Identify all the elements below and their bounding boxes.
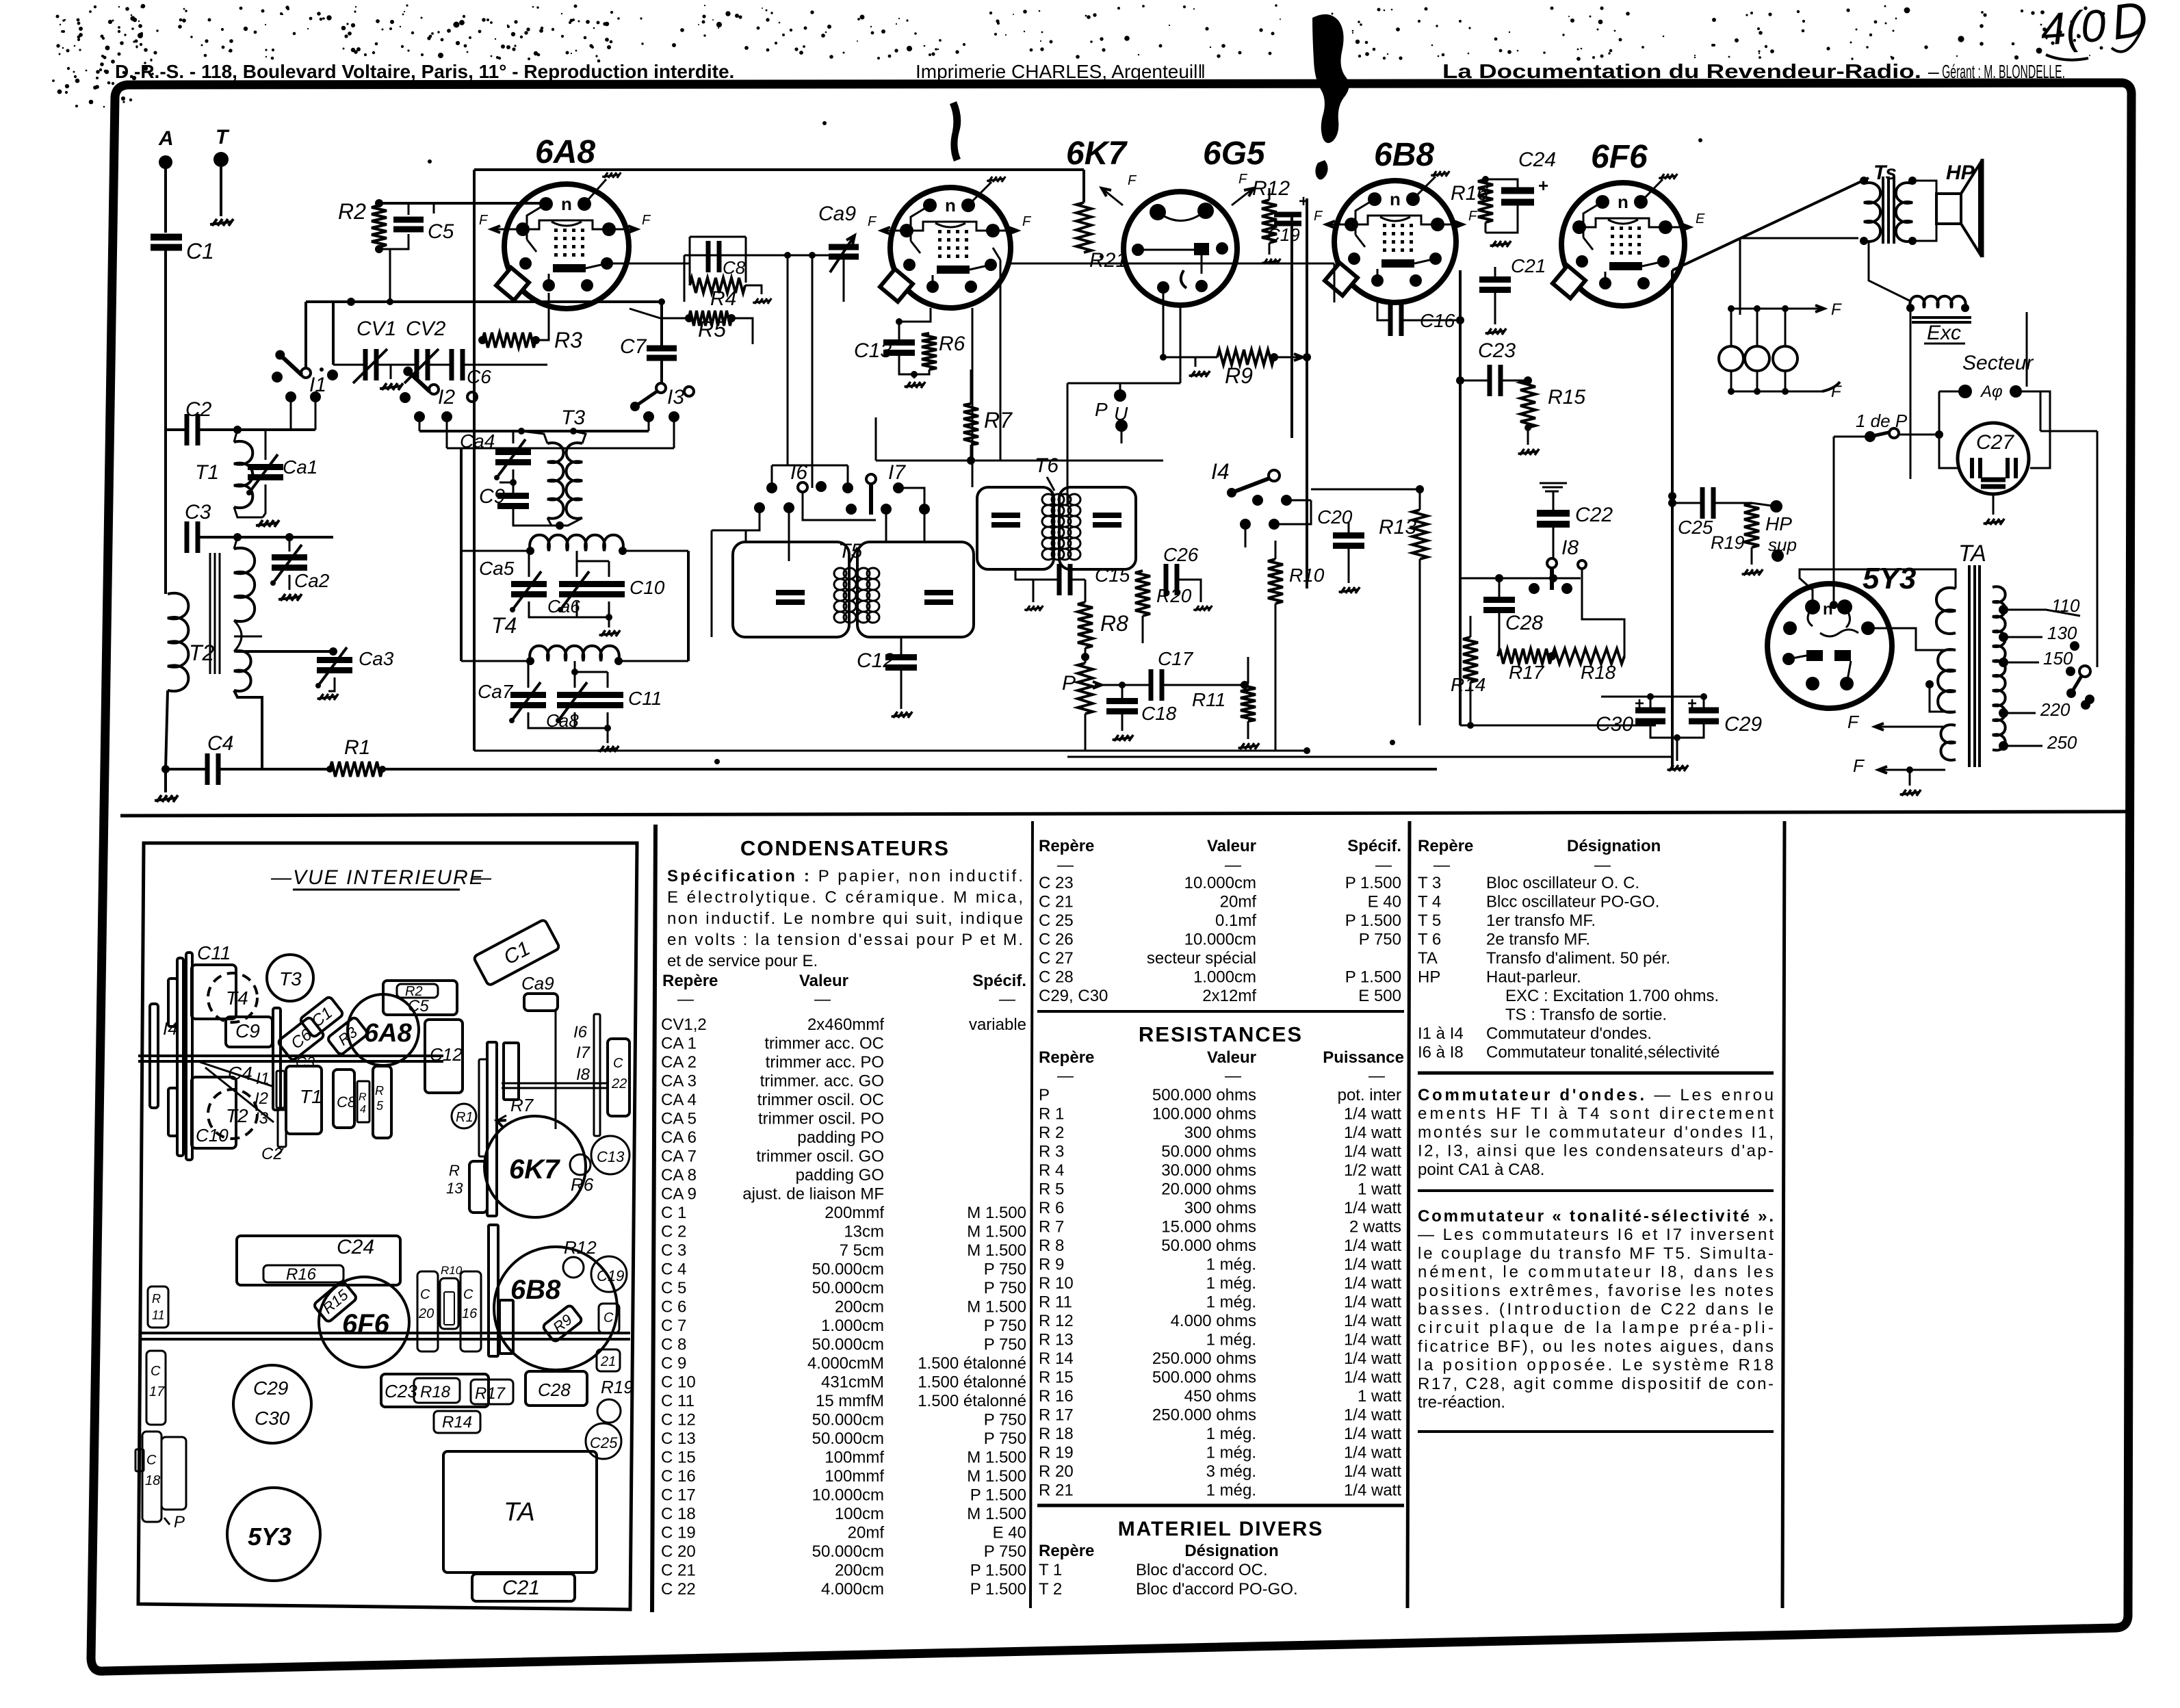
svg-text:C23: C23 bbox=[1478, 339, 1516, 362]
svg-text:Bloc d'accord OC.: Bloc d'accord OC. bbox=[1136, 1561, 1268, 1579]
resistor R3 bbox=[482, 333, 536, 348]
svg-text:C18: C18 bbox=[1141, 703, 1177, 724]
svg-text:I1 à I4: I1 à I4 bbox=[1418, 1024, 1464, 1043]
svg-text:CA 8: CA 8 bbox=[661, 1166, 697, 1185]
svg-text:6B8: 6B8 bbox=[510, 1275, 561, 1305]
svg-text:R6: R6 bbox=[939, 333, 965, 355]
resistor R1 circle (chassis) bbox=[452, 1104, 476, 1128]
svg-text:C 12: C 12 bbox=[661, 1411, 696, 1429]
svg-text:C19: C19 bbox=[597, 1267, 624, 1284]
wire F arrows 6A8 bbox=[491, 229, 523, 231]
svg-text:Imprimerie CHARLES, Argenteu: Imprimerie CHARLES, Argenteuil‖ bbox=[916, 61, 1206, 82]
svg-text:R17, C28, agit comme dispositi: R17, C28, agit comme dispositif de con- bbox=[1418, 1375, 1774, 1393]
fuse rail F upper bbox=[1730, 308, 1824, 310]
svg-text:padding PO: padding PO bbox=[797, 1128, 884, 1147]
svg-text:R 7: R 7 bbox=[1039, 1218, 1064, 1237]
svg-text:C 16: C 16 bbox=[661, 1467, 696, 1486]
trimmer C2 (chassis) bbox=[278, 1110, 286, 1147]
svg-text:R19: R19 bbox=[1711, 532, 1745, 553]
tuning shaft horizontal bbox=[138, 1054, 443, 1057]
svg-text:C26: C26 bbox=[1163, 544, 1199, 565]
svg-text:P 750: P 750 bbox=[984, 1279, 1026, 1297]
svg-text:C10: C10 bbox=[630, 577, 665, 598]
svg-text:CA 6: CA 6 bbox=[661, 1128, 697, 1147]
svg-text:C 8: C 8 bbox=[661, 1336, 686, 1354]
svg-text:C 5: C 5 bbox=[661, 1279, 686, 1297]
svg-text:tre-réaction.: tre-réaction. bbox=[1418, 1393, 1505, 1412]
capacitor C29 bbox=[1689, 708, 1719, 714]
svg-text:1/4 watt: 1/4 watt bbox=[1344, 1349, 1401, 1368]
capacitor C1 (chassis) bbox=[299, 996, 343, 1037]
svg-text:RESISTANCES: RESISTANCES bbox=[1139, 1022, 1303, 1046]
capacitors C29 C30 bbox=[233, 1365, 311, 1443]
svg-text:T4: T4 bbox=[491, 613, 517, 638]
capacitor C21 bbox=[1479, 276, 1511, 283]
capacitor C6 bbox=[450, 349, 454, 380]
svg-text:1.500 étalonné: 1.500 étalonné bbox=[918, 1392, 1026, 1410]
svg-text:—: — bbox=[1056, 1067, 1074, 1085]
svg-text:C11: C11 bbox=[197, 942, 231, 963]
svg-text:Puissance: Puissance bbox=[1323, 1048, 1404, 1067]
wire fuse link bbox=[1730, 308, 1740, 310]
svg-text:M 1.500: M 1.500 bbox=[967, 1449, 1026, 1467]
shaft vertical bbox=[273, 1008, 281, 1110]
svg-text:Bloc d'accord PO-GO.: Bloc d'accord PO-GO. bbox=[1136, 1580, 1298, 1599]
svg-text:C: C bbox=[604, 1310, 614, 1325]
svg-text:R 18: R 18 bbox=[1039, 1425, 1074, 1443]
svg-text:Ca9: Ca9 bbox=[818, 203, 856, 225]
wire R7 bus bbox=[876, 460, 1163, 462]
svg-text:C9: C9 bbox=[235, 1020, 260, 1041]
svg-text:trimmer oscil. PO: trimmer oscil. PO bbox=[758, 1110, 884, 1128]
svg-text:C: C bbox=[613, 1056, 623, 1071]
svg-text:Spécif.: Spécif. bbox=[972, 972, 1026, 990]
svg-text:T3: T3 bbox=[561, 406, 585, 429]
svg-text:3 még.: 3 még. bbox=[1206, 1462, 1256, 1481]
svg-text:6K7: 6K7 bbox=[509, 1154, 560, 1185]
svg-text:1.500 étalonné: 1.500 étalonné bbox=[918, 1354, 1026, 1373]
svg-text:C13: C13 bbox=[597, 1148, 625, 1165]
svg-text:C1: C1 bbox=[186, 239, 214, 263]
capacitor C6 (chassis) bbox=[277, 1016, 324, 1061]
trimmer Ca3 bbox=[317, 657, 352, 663]
tube 5Y3 (chassis) bbox=[227, 1488, 320, 1581]
svg-text:21: 21 bbox=[600, 1354, 616, 1369]
resistor R19 bbox=[1744, 503, 1759, 547]
svg-text:MATERIEL DIVERS: MATERIEL DIVERS bbox=[1118, 1518, 1324, 1540]
svg-text:R 19: R 19 bbox=[1039, 1444, 1074, 1462]
svg-text:R 17: R 17 bbox=[1039, 1406, 1074, 1425]
svg-text:C17: C17 bbox=[1158, 648, 1194, 669]
capacitor C19 bbox=[1274, 212, 1301, 218]
svg-text:R 8: R 8 bbox=[1039, 1237, 1064, 1255]
svg-text:n: n bbox=[1618, 192, 1628, 212]
svg-text:R 11: R 11 bbox=[1039, 1293, 1072, 1312]
svg-text:500.000 ohms: 500.000 ohms bbox=[1152, 1369, 1256, 1387]
svg-text:C23: C23 bbox=[385, 1381, 417, 1401]
svg-text:en volts : la tension d'essai: en volts : la tension d'essai pour P et … bbox=[667, 931, 1023, 949]
svg-text:C 26: C 26 bbox=[1039, 931, 1074, 949]
svg-text:P 1.500: P 1.500 bbox=[970, 1562, 1026, 1580]
svg-text:R17: R17 bbox=[475, 1384, 506, 1403]
shaft I4 bbox=[150, 1004, 158, 1108]
wire tap to Ca3 bbox=[234, 636, 262, 638]
svg-text:TA: TA bbox=[504, 1498, 535, 1527]
excitation coil Exc bbox=[1910, 296, 1965, 308]
svg-text:200mmf: 200mmf bbox=[825, 1204, 884, 1222]
svg-text:F: F bbox=[1853, 755, 1865, 776]
svg-text:Ca3: Ca3 bbox=[359, 648, 394, 669]
wire bus x693 down bbox=[473, 337, 476, 751]
svg-text:5: 5 bbox=[376, 1099, 384, 1113]
svg-text:R19: R19 bbox=[601, 1377, 634, 1397]
svg-text:T 3: T 3 bbox=[1418, 874, 1441, 892]
svg-text:15.000 ohms: 15.000 ohms bbox=[1161, 1218, 1256, 1237]
capacitor C5 bbox=[393, 217, 424, 223]
svg-text:C25: C25 bbox=[590, 1434, 618, 1451]
resistor R21 bbox=[1076, 203, 1091, 253]
svg-text:F: F bbox=[1128, 173, 1137, 188]
fuse lamps bbox=[1719, 346, 1743, 371]
svg-text:M 1.500: M 1.500 bbox=[967, 1505, 1026, 1523]
svg-text:T 4: T 4 bbox=[1418, 893, 1441, 911]
svg-text:R 1: R 1 bbox=[1039, 1105, 1064, 1124]
capacitor C9 bbox=[497, 493, 529, 499]
capacitor C16 (chassis) bbox=[460, 1271, 481, 1351]
svg-text:Valeur: Valeur bbox=[1207, 1048, 1256, 1067]
wire 6B8 verticals bbox=[1459, 270, 1462, 725]
svg-text:15 mmfM: 15 mmfM bbox=[816, 1392, 884, 1410]
svg-text:C10: C10 bbox=[196, 1125, 229, 1146]
svg-text:20: 20 bbox=[418, 1306, 434, 1321]
svg-text:C5: C5 bbox=[408, 997, 429, 1015]
svg-text:R9: R9 bbox=[1225, 363, 1253, 388]
svg-text:Spécif.: Spécif. bbox=[1347, 837, 1401, 855]
svg-text:R 5: R 5 bbox=[1039, 1180, 1064, 1199]
svg-text:F: F bbox=[1831, 383, 1842, 401]
capacitor C16 bbox=[1388, 305, 1393, 336]
svg-text:C 28: C 28 bbox=[1039, 968, 1074, 987]
svg-text:1/4 watt: 1/4 watt bbox=[1344, 1293, 1401, 1312]
svg-text:et de service pour E.: et de service pour E. bbox=[667, 952, 818, 970]
svg-text:Repère: Repère bbox=[1039, 1542, 1094, 1560]
svg-text:P: P bbox=[1039, 1086, 1050, 1104]
svg-text:1/4 watt: 1/4 watt bbox=[1344, 1199, 1401, 1217]
svg-text:CA 9: CA 9 bbox=[661, 1185, 697, 1204]
svg-text:Ca7: Ca7 bbox=[478, 681, 514, 702]
svg-text:13: 13 bbox=[446, 1180, 463, 1197]
svg-text:1/4 watt: 1/4 watt bbox=[1344, 1237, 1401, 1255]
svg-text:1er transfo MF.: 1er transfo MF. bbox=[1486, 911, 1596, 930]
switch I2 bbox=[400, 392, 411, 403]
resistor R6 bbox=[922, 333, 937, 370]
svg-text:C29, C30: C29, C30 bbox=[1039, 987, 1108, 1005]
wire CV row bbox=[333, 364, 365, 366]
tube 6F6 (chassis) bbox=[319, 1277, 409, 1367]
svg-text:1/4 watt: 1/4 watt bbox=[1344, 1256, 1401, 1274]
svg-text:—: — bbox=[270, 866, 292, 889]
svg-text:basses. (Introduction de C22 d: basses. (Introduction de C22 dans le bbox=[1418, 1300, 1774, 1319]
svg-text:HP: HP bbox=[1946, 161, 1975, 184]
capacitor T5 left bbox=[776, 590, 805, 595]
capacitor C10 bbox=[192, 1077, 236, 1148]
svg-text:11: 11 bbox=[152, 1308, 165, 1322]
svg-text:C24: C24 bbox=[1518, 148, 1556, 171]
svg-text:10.000cm: 10.000cm bbox=[1184, 931, 1256, 949]
svg-text:6A8: 6A8 bbox=[535, 134, 595, 170]
svg-text:CONDENSATEURS: CONDENSATEURS bbox=[740, 836, 950, 860]
capacitor C4 bbox=[205, 753, 210, 785]
wire I7 levers down bbox=[803, 492, 876, 520]
svg-text:C 7: C 7 bbox=[661, 1317, 686, 1335]
svg-text:T: T bbox=[216, 126, 230, 148]
svg-text:C21: C21 bbox=[502, 1577, 540, 1599]
wire left column bbox=[164, 430, 167, 537]
svg-text:R 3: R 3 bbox=[1039, 1143, 1064, 1161]
svg-text:trimmer acc. PO: trimmer acc. PO bbox=[766, 1053, 884, 1072]
svg-text:7 5cm: 7 5cm bbox=[840, 1241, 884, 1260]
svg-text:P 750: P 750 bbox=[984, 1317, 1026, 1335]
svg-text:1.500 étalonné: 1.500 étalonné bbox=[918, 1373, 1026, 1392]
block C23 R18 R17 bbox=[381, 1374, 489, 1407]
svg-text:100mmf: 100mmf bbox=[825, 1467, 884, 1486]
svg-text:n: n bbox=[1390, 189, 1401, 209]
svg-text:C8: C8 bbox=[723, 257, 746, 278]
svg-text:C 19: C 19 bbox=[661, 1524, 696, 1542]
svg-text:C: C bbox=[151, 1364, 161, 1379]
svg-text:1 watt: 1 watt bbox=[1358, 1180, 1401, 1199]
ground under T bbox=[210, 219, 233, 226]
transformer T2 circle bbox=[208, 1089, 257, 1139]
svg-text:I8: I8 bbox=[576, 1065, 591, 1084]
svg-text:C 2: C 2 bbox=[661, 1223, 686, 1241]
resistor R1 bbox=[330, 762, 382, 777]
svg-text:C9: C9 bbox=[479, 485, 506, 508]
ink blob bbox=[1312, 14, 1349, 143]
TA secondary mid bbox=[1938, 649, 1956, 712]
svg-text:300 ohms: 300 ohms bbox=[1184, 1124, 1256, 1142]
svg-text:10.000cm: 10.000cm bbox=[1184, 874, 1256, 892]
svg-text:CA 1: CA 1 bbox=[661, 1035, 697, 1053]
svg-text:Secteur: Secteur bbox=[1962, 352, 2034, 374]
svg-text:C 23: C 23 bbox=[1039, 874, 1074, 892]
capacitor C22 bbox=[1540, 483, 1567, 491]
capacitor C17 bbox=[1149, 669, 1154, 701]
svg-text:P 750: P 750 bbox=[1359, 931, 1401, 949]
svg-text:Repère: Repère bbox=[1039, 837, 1094, 855]
resistor R7 bbox=[963, 404, 978, 445]
svg-text:R1: R1 bbox=[456, 1110, 473, 1125]
6K7 assembly bars bbox=[487, 1042, 497, 1216]
resistor R15 (chassis) bbox=[313, 1280, 358, 1323]
trimmer Ca5 bbox=[511, 581, 547, 587]
wire A column bbox=[164, 248, 167, 430]
svg-text:1/4 watt: 1/4 watt bbox=[1344, 1124, 1401, 1142]
svg-text:E 500: E 500 bbox=[1358, 987, 1401, 1005]
svg-text:500.000 ohms: 500.000 ohms bbox=[1152, 1086, 1256, 1104]
taps bbox=[1999, 605, 2008, 614]
svg-text:R 9: R 9 bbox=[1039, 1256, 1064, 1274]
capacitor C22 (chassis) bbox=[608, 1039, 630, 1116]
capacitor C10 bbox=[593, 581, 625, 587]
ground under Ca1 bbox=[256, 520, 279, 527]
separator line bbox=[120, 812, 2127, 816]
resistor R5 (chassis) bbox=[373, 1066, 391, 1138]
wire I1 to rail bbox=[304, 302, 307, 368]
shaft through 6B8 bbox=[489, 1225, 498, 1356]
capacitor C21 bottom label bbox=[472, 1574, 575, 1601]
svg-text:1/4 watt: 1/4 watt bbox=[1344, 1369, 1401, 1387]
svg-text:C4: C4 bbox=[207, 732, 233, 755]
trimmer Ca8 bbox=[557, 692, 593, 698]
svg-text:R7: R7 bbox=[984, 408, 1013, 432]
svg-text:pot. inter: pot. inter bbox=[1338, 1086, 1401, 1104]
capacitor C25 bbox=[1700, 487, 1705, 519]
capacitor C18 bbox=[1106, 698, 1138, 704]
svg-text:R 6: R 6 bbox=[1039, 1199, 1064, 1217]
wire I2-I3 rail bbox=[447, 448, 674, 450]
svg-text:C 22: C 22 bbox=[661, 1580, 696, 1599]
svg-text:Transfo d'aliment. 50 pér.: Transfo d'aliment. 50 pér. bbox=[1486, 949, 1670, 968]
svg-text:trimmer acc. OC: trimmer acc. OC bbox=[764, 1035, 884, 1053]
svg-text:100cm: 100cm bbox=[835, 1505, 884, 1523]
svg-text:A: A bbox=[158, 127, 174, 150]
tube 6A8 (chassis) bbox=[348, 994, 419, 1065]
svg-text:C20: C20 bbox=[1317, 506, 1353, 528]
capacitor C25 (chassis) bbox=[586, 1423, 621, 1459]
capacitor C21 (chassis) bbox=[599, 1304, 619, 1333]
wire C16 to bus bbox=[1451, 320, 1460, 322]
svg-text:R16: R16 bbox=[286, 1265, 317, 1284]
svg-text:C12: C12 bbox=[857, 649, 894, 672]
capacitor T6 left bbox=[991, 513, 1020, 518]
resistor R16 bbox=[263, 1265, 343, 1282]
svg-text:C22: C22 bbox=[1575, 504, 1613, 526]
svg-text:Aφ: Aφ bbox=[1980, 383, 2003, 401]
svg-text:—: — bbox=[1433, 856, 1451, 875]
svg-text:R 2: R 2 bbox=[1039, 1124, 1064, 1142]
svg-text:E 40: E 40 bbox=[1368, 893, 1401, 911]
transformer TA (chassis) bbox=[443, 1451, 597, 1573]
svg-text:C11: C11 bbox=[628, 688, 662, 709]
svg-text:6B8: 6B8 bbox=[1374, 137, 1434, 173]
TA primary coil bbox=[1993, 586, 2006, 750]
capacitor C1 bbox=[151, 234, 182, 241]
svg-text:1 még.: 1 még. bbox=[1206, 1256, 1256, 1274]
svg-text:4.000cm: 4.000cm bbox=[821, 1580, 884, 1599]
svg-text:C24: C24 bbox=[337, 1236, 374, 1258]
svg-text:R 10: R 10 bbox=[1039, 1274, 1074, 1293]
svg-text:Ca9: Ca9 bbox=[521, 973, 554, 994]
svg-text:C 6: C 6 bbox=[661, 1298, 686, 1317]
svg-text:P 750: P 750 bbox=[984, 1429, 1026, 1448]
svg-text:T2: T2 bbox=[189, 640, 215, 665]
svg-text:C 21: C 21 bbox=[1039, 893, 1074, 911]
svg-text:18: 18 bbox=[145, 1473, 160, 1488]
transformer T2 core bbox=[209, 553, 211, 674]
svg-text:1/2 watt: 1/2 watt bbox=[1344, 1161, 1401, 1180]
svg-text:T1: T1 bbox=[300, 1086, 322, 1107]
wire 6K7 plate to T6 right bbox=[972, 308, 974, 487]
svg-text:R 20: R 20 bbox=[1039, 1462, 1074, 1481]
svg-text:10.000cm: 10.000cm bbox=[812, 1486, 884, 1505]
svg-text:150: 150 bbox=[2043, 648, 2073, 669]
svg-text:200cm: 200cm bbox=[835, 1562, 884, 1580]
capacitor C19 (chassis) bbox=[591, 1256, 627, 1292]
svg-text:1/4 watt: 1/4 watt bbox=[1344, 1406, 1401, 1425]
svg-text:R20: R20 bbox=[1156, 585, 1192, 606]
wire cathode down bbox=[1671, 270, 1674, 769]
svg-text:C: C bbox=[463, 1287, 473, 1302]
ground 6A8 top bbox=[584, 179, 606, 204]
svg-text:I3: I3 bbox=[667, 386, 684, 409]
svg-text:variable: variable bbox=[969, 1015, 1026, 1034]
svg-text:R 13: R 13 bbox=[1039, 1331, 1074, 1349]
svg-text:110: 110 bbox=[2051, 595, 2080, 616]
TA secondary top bbox=[1936, 588, 1956, 634]
svg-text:D: D bbox=[2108, 0, 2151, 51]
resistor R8 bbox=[1078, 602, 1093, 648]
svg-text:Ca2: Ca2 bbox=[294, 570, 330, 591]
svg-text:200cm: 200cm bbox=[835, 1298, 884, 1317]
svg-text:1/4 watt: 1/4 watt bbox=[1344, 1425, 1401, 1443]
svg-text:R8: R8 bbox=[1100, 611, 1128, 636]
svg-text:C2: C2 bbox=[261, 1145, 283, 1163]
svg-text:P 1.500: P 1.500 bbox=[970, 1486, 1026, 1505]
svg-text:I2, I3, ainsi que les condensa: I2, I3, ainsi que les condensateurs d'ap… bbox=[1418, 1142, 1774, 1161]
capacitor C13 (chassis) bbox=[591, 1136, 630, 1174]
wire 6K7 plate down bbox=[1000, 260, 1002, 461]
svg-text:300 ohms: 300 ohms bbox=[1184, 1199, 1256, 1217]
svg-text:—: — bbox=[1056, 856, 1074, 875]
svg-text:E: E bbox=[1696, 211, 1705, 227]
svg-text:Blcc oscillateur PO-GO.: Blcc oscillateur PO-GO. bbox=[1486, 893, 1659, 911]
resistor R3 (chassis) bbox=[327, 1016, 369, 1055]
ground 6K7 top bbox=[968, 182, 991, 205]
svg-text:6G5: 6G5 bbox=[1203, 135, 1266, 172]
svg-text:R 16: R 16 bbox=[1039, 1387, 1074, 1406]
svg-text:Désignation: Désignation bbox=[1567, 837, 1661, 855]
svg-text:—: — bbox=[1368, 1067, 1386, 1085]
svg-text:20.000 ohms: 20.000 ohms bbox=[1161, 1180, 1256, 1199]
svg-text:1/4 watt: 1/4 watt bbox=[1344, 1481, 1401, 1500]
resistor R14 (chassis) bbox=[434, 1411, 480, 1433]
svg-text:R 12: R 12 bbox=[1039, 1312, 1074, 1330]
svg-text:P 1.500: P 1.500 bbox=[1345, 911, 1401, 930]
svg-text:CV2: CV2 bbox=[406, 318, 446, 340]
svg-text:C2: C2 bbox=[185, 398, 212, 421]
svg-text:1 még.: 1 még. bbox=[1206, 1425, 1256, 1443]
svg-text:C 20: C 20 bbox=[661, 1542, 696, 1561]
tuning gang plates bbox=[177, 958, 183, 1156]
svg-text:Repère: Repère bbox=[1418, 837, 1473, 855]
wire exc right vertical bbox=[2026, 312, 2028, 387]
wire bottom rail bbox=[382, 768, 1437, 771]
svg-text:50.000 ohms: 50.000 ohms bbox=[1161, 1237, 1256, 1255]
trimmer Ca6 bbox=[559, 581, 595, 587]
svg-text:C21: C21 bbox=[1511, 255, 1546, 276]
capacitor C2 bbox=[185, 414, 190, 445]
wires I6I7 to T5 bbox=[746, 508, 760, 542]
wire selector vertical bbox=[2097, 431, 2099, 667]
resistor R9 bbox=[1217, 350, 1274, 365]
svg-text:Valeur: Valeur bbox=[799, 972, 848, 990]
svg-text:D.-R.-S. - 118, Boulevard: D.-R.-S. - 118, Boulevard Voltaire, Pari… bbox=[115, 61, 734, 82]
capacitor T5 right bbox=[924, 590, 953, 595]
svg-text:50.000cm: 50.000cm bbox=[812, 1429, 884, 1448]
svg-text:M 1.500: M 1.500 bbox=[967, 1298, 1026, 1317]
svg-text:100.000 ohms: 100.000 ohms bbox=[1152, 1105, 1256, 1124]
